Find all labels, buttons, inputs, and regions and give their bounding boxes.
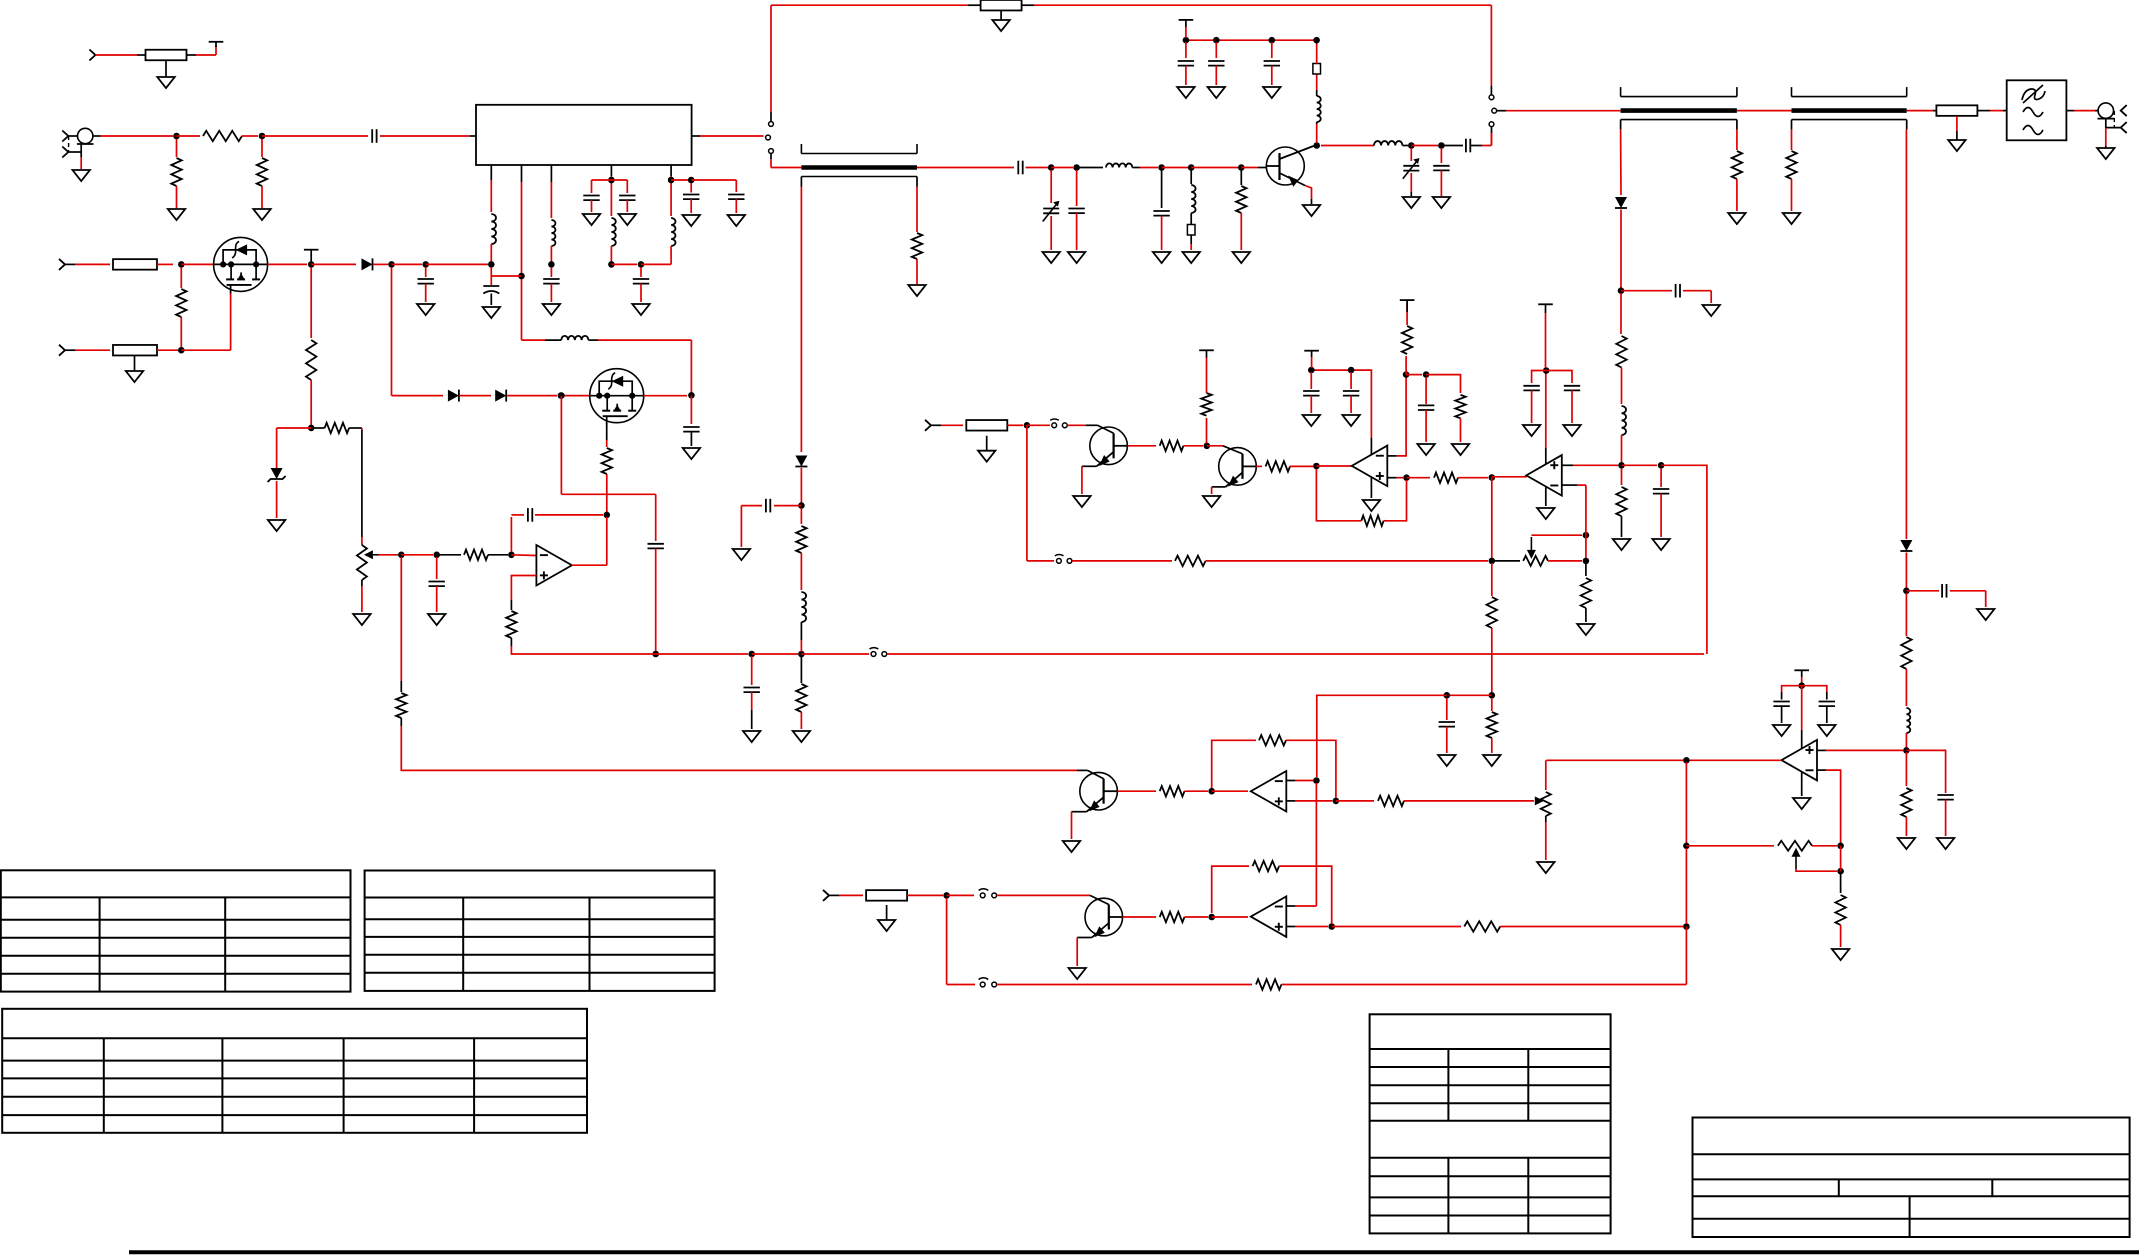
wire <box>1026 425 1028 561</box>
resistor R37 <box>1160 786 1185 796</box>
op-amp U1 <box>536 545 572 586</box>
wire <box>1425 410 1427 442</box>
wire <box>437 554 461 556</box>
wire <box>230 292 232 350</box>
wire <box>1933 110 1936 112</box>
wire <box>196 54 216 56</box>
wire <box>550 182 552 218</box>
resistor R39 <box>1378 796 1404 806</box>
ground <box>1898 838 1915 849</box>
node N24 <box>178 347 185 354</box>
wire <box>1545 373 1547 448</box>
resistor R36 <box>1616 336 1626 368</box>
capacitor C11 <box>1433 166 1449 171</box>
wire <box>1906 590 1939 592</box>
node N34 <box>604 512 611 519</box>
wire <box>588 339 598 341</box>
wire <box>1387 477 1397 479</box>
wire <box>1905 553 1907 589</box>
resistor R6 <box>1236 186 1246 213</box>
wire <box>361 430 363 537</box>
wire <box>1905 817 1907 836</box>
wire <box>507 395 557 397</box>
wire <box>400 557 402 681</box>
emitter jog <box>1082 465 1097 467</box>
wire <box>1685 927 1687 985</box>
wire <box>800 177 802 187</box>
wire <box>916 259 918 284</box>
wire <box>490 294 492 306</box>
wire <box>93 135 101 137</box>
filter block FL1 <box>2007 80 2067 140</box>
ground <box>1483 755 1500 766</box>
wire <box>800 468 802 503</box>
ground <box>1783 213 1800 224</box>
node N44 <box>1403 371 1410 378</box>
wire <box>1781 692 1783 700</box>
node N28 <box>422 261 429 268</box>
wire <box>400 681 402 692</box>
ground <box>1652 539 1669 550</box>
node N25 <box>308 261 315 268</box>
capacitor C31 <box>1653 489 1669 494</box>
wire <box>1660 468 1662 487</box>
capacitor C37 <box>1819 702 1835 707</box>
wire <box>180 267 182 288</box>
base wire <box>1223 446 1243 454</box>
wire <box>1826 770 1841 843</box>
wire <box>1491 738 1493 753</box>
wire <box>1620 130 1622 195</box>
power tap VT5 <box>1400 300 1415 312</box>
node N27 <box>308 425 315 432</box>
wire <box>1737 110 1792 112</box>
node N58 <box>1313 777 1320 784</box>
node N55 <box>1658 462 1665 469</box>
inductor L11 <box>801 592 806 622</box>
capacitor C7 <box>1208 61 1224 66</box>
wire <box>1290 465 1313 467</box>
wire <box>691 179 736 181</box>
wire <box>1545 448 1547 464</box>
ground <box>583 214 600 225</box>
node N6 <box>1158 164 1165 171</box>
wire <box>1802 686 1827 692</box>
base wire <box>1090 895 1109 904</box>
wire <box>1350 396 1352 413</box>
resistor R41 <box>1253 861 1280 871</box>
wire <box>1782 686 1802 692</box>
wire <box>1425 377 1427 404</box>
resistor R8 <box>1786 151 1796 179</box>
transistor Q4 <box>1090 427 1128 466</box>
wire <box>262 135 368 137</box>
node N64 <box>1683 757 1690 764</box>
ground <box>1203 496 1220 507</box>
fuse F3 <box>1313 64 1321 75</box>
wire <box>1397 477 1403 479</box>
resistor R9 <box>1936 105 1977 116</box>
wire <box>1426 375 1460 393</box>
capacitor C35 <box>1937 795 1953 800</box>
connector shield dash <box>68 136 70 152</box>
switch SW5 <box>1055 555 1072 564</box>
wire <box>490 267 492 285</box>
wire <box>1022 4 1034 6</box>
wire <box>770 5 772 112</box>
wire <box>68 135 77 137</box>
wire <box>1532 371 1547 384</box>
transistor Q7 <box>1085 898 1123 937</box>
wire <box>1905 593 1907 636</box>
wire <box>561 395 590 397</box>
table T_C <box>2 1009 587 1133</box>
ground <box>2097 146 2114 159</box>
wire <box>1190 244 1192 250</box>
capacitor C6 <box>1178 61 1194 66</box>
node N63 <box>943 892 950 899</box>
resistor R3 <box>171 158 181 186</box>
ground <box>1433 197 1450 208</box>
wire <box>510 638 512 646</box>
node N36 <box>433 552 440 559</box>
wire <box>511 554 536 557</box>
wire <box>137 54 146 56</box>
switch SW4 <box>1050 419 1067 428</box>
wire <box>550 246 552 262</box>
wire <box>1407 477 1431 479</box>
wire <box>741 505 762 507</box>
wire <box>690 395 692 424</box>
resistor R25 <box>1160 441 1184 451</box>
wire <box>1311 199 1313 204</box>
wire <box>1545 486 1547 506</box>
connector J6 <box>925 420 931 431</box>
resistor R21 <box>796 684 806 712</box>
wire <box>690 432 692 446</box>
wire <box>2003 110 2007 112</box>
wire <box>1490 86 1492 95</box>
wire <box>1281 984 1686 986</box>
wire <box>1440 148 1442 163</box>
wire <box>1531 534 1582 536</box>
ground <box>1342 415 1359 426</box>
wire <box>916 187 918 233</box>
wire <box>1812 845 1837 847</box>
node N43 <box>1313 463 1320 470</box>
resistor R40 <box>1160 912 1185 922</box>
wire <box>1397 377 1406 456</box>
wire <box>801 653 869 655</box>
wire <box>611 263 637 265</box>
wire <box>1384 520 1387 522</box>
wire <box>535 514 603 516</box>
wire <box>95 54 137 56</box>
resistor R11 <box>1901 788 1911 817</box>
MOSFET Q2 <box>590 369 644 425</box>
wire <box>401 554 433 556</box>
wire <box>931 424 941 426</box>
wire <box>1801 686 1803 730</box>
capacitor C8 <box>1264 61 1280 66</box>
potentiometer RV4 <box>1778 841 1812 869</box>
node N23 <box>178 261 185 268</box>
resistor R42 <box>1464 921 1500 931</box>
wire <box>1500 926 1683 928</box>
wire <box>752 653 798 655</box>
ground <box>1438 755 1455 766</box>
wire <box>1817 749 1826 751</box>
wire <box>1686 845 1774 847</box>
wire <box>1072 560 1172 562</box>
wire <box>436 557 438 579</box>
node N57 <box>1208 788 1215 795</box>
wire <box>1685 762 1687 843</box>
wire <box>1446 727 1448 753</box>
wire <box>1801 730 1803 749</box>
wire <box>560 396 562 495</box>
filter glyph <box>2022 85 2045 103</box>
node N15 <box>1438 142 1445 149</box>
wire <box>1185 27 1187 38</box>
base wire <box>1088 770 1104 778</box>
wire <box>2074 110 2095 112</box>
node N13 <box>1313 37 1320 44</box>
wire <box>545 339 561 341</box>
wire <box>700 135 764 137</box>
wire <box>1585 485 1587 535</box>
connector J3 pin 2 <box>2121 122 2127 133</box>
node N21 <box>668 177 675 184</box>
wire <box>68 151 81 153</box>
capacitor C21 <box>648 544 664 549</box>
wire <box>1316 122 1318 124</box>
wire <box>640 267 642 277</box>
wire <box>361 537 363 545</box>
wire <box>1387 480 1407 521</box>
wire <box>80 157 82 169</box>
diode D6 <box>495 390 506 402</box>
wire <box>1240 213 1242 250</box>
wire <box>2106 118 2121 127</box>
wire <box>276 481 278 518</box>
wire <box>1545 313 1547 368</box>
capacitor C5 <box>1153 211 1169 216</box>
wire <box>1215 66 1217 85</box>
wire <box>510 600 512 610</box>
ground <box>683 215 700 226</box>
wire <box>349 427 362 429</box>
wire <box>800 640 802 652</box>
resistor R10 <box>1901 637 1911 669</box>
wire <box>75 349 110 351</box>
wire <box>997 984 1252 986</box>
capacitor C14 <box>619 196 635 201</box>
resistor R14 <box>113 345 157 356</box>
wire <box>1621 368 1623 405</box>
wire <box>1206 370 1208 393</box>
table T_B <box>365 871 715 991</box>
wire <box>591 200 593 212</box>
ground <box>1183 252 1200 263</box>
wire <box>1211 487 1213 494</box>
power tap VT8 <box>1794 670 1809 677</box>
wire <box>1286 780 1295 782</box>
ground <box>1063 841 1080 852</box>
wire <box>1321 145 1374 147</box>
wire <box>1050 170 1052 203</box>
ground <box>1263 87 1280 98</box>
node N31 <box>558 392 565 399</box>
node N1 <box>173 133 180 140</box>
wire <box>1305 186 1312 200</box>
node N60 <box>1208 914 1215 921</box>
ground <box>168 209 185 220</box>
wire <box>610 246 612 262</box>
ground <box>1577 624 1594 635</box>
resistor R12 <box>113 259 157 270</box>
connector J2 pin 1 <box>62 131 68 142</box>
wire <box>1183 445 1203 447</box>
node N40 <box>1024 422 1031 429</box>
wire <box>460 395 491 397</box>
wire <box>1295 926 1328 928</box>
ground <box>1613 539 1630 550</box>
wire <box>1162 167 1188 169</box>
transistor Q3 <box>1266 146 1313 187</box>
capacitor C2 <box>1018 161 1022 175</box>
capacitor C29 <box>1343 391 1359 396</box>
ground <box>1563 425 1580 436</box>
inductor L12 <box>1622 406 1627 435</box>
wire <box>671 179 688 181</box>
node N11 <box>1213 37 1220 44</box>
switch SW1 <box>766 122 774 154</box>
emitter jog <box>1212 486 1226 488</box>
wire <box>490 165 492 180</box>
filter glyph sine <box>2023 126 2043 135</box>
ground <box>268 520 285 531</box>
fuse F2 <box>1187 225 1195 236</box>
wire <box>655 494 657 541</box>
wire <box>640 284 642 302</box>
wire <box>561 493 655 495</box>
power tap VT7 <box>1538 304 1553 313</box>
wire <box>1817 769 1826 771</box>
ground <box>157 60 174 88</box>
wire <box>1545 760 1547 790</box>
wire <box>180 317 182 347</box>
wire <box>1411 145 1438 147</box>
wire <box>800 656 802 683</box>
sheet border <box>129 1250 2139 1254</box>
ground <box>1363 500 1380 511</box>
wire <box>1190 235 1192 244</box>
wire <box>1207 445 1223 447</box>
node N26 <box>388 261 395 268</box>
wire <box>1491 127 1493 133</box>
ground <box>1417 444 1434 455</box>
wire <box>522 339 546 341</box>
transformer T1 <box>801 144 917 177</box>
wire <box>1905 733 1907 748</box>
node N12 <box>1269 37 1276 44</box>
wire <box>1907 110 1933 112</box>
wire <box>311 427 324 429</box>
wire <box>511 514 524 516</box>
wire <box>1826 749 1903 751</box>
wire <box>1491 478 1493 559</box>
wire <box>1117 790 1156 792</box>
ground <box>793 731 810 742</box>
resistor R16 <box>602 448 612 474</box>
resistor R34 <box>1581 578 1591 608</box>
wire <box>770 159 772 168</box>
wire <box>1985 591 1987 607</box>
wire <box>1185 916 1209 918</box>
node N53 <box>1583 558 1590 565</box>
ground <box>1948 131 1965 151</box>
wire <box>1620 210 1622 289</box>
diode D3 <box>1900 540 1912 551</box>
wire <box>1212 916 1248 918</box>
wire <box>839 894 863 896</box>
wire <box>1446 698 1448 720</box>
ground <box>1452 444 1469 455</box>
ground <box>1937 838 1954 849</box>
ground <box>1208 87 1225 98</box>
wire <box>361 580 363 586</box>
MOSFET Q1 <box>214 237 268 293</box>
wire <box>800 622 802 640</box>
inductor L2 <box>1191 185 1195 213</box>
wire <box>1271 66 1273 85</box>
node N14 <box>1408 142 1415 149</box>
wire <box>1443 694 1492 696</box>
wire <box>1271 42 1273 58</box>
wire <box>392 263 423 265</box>
wire <box>1956 116 1958 131</box>
resistor R27 <box>1266 461 1290 471</box>
op-amp U3 <box>1526 455 1562 496</box>
wire <box>606 423 608 440</box>
capacitor C12 <box>1942 584 1946 598</box>
capacitor C17 <box>418 279 434 284</box>
wire <box>1458 477 1488 479</box>
wire <box>1497 110 1506 112</box>
ground <box>1523 425 1540 436</box>
node N56 <box>1543 367 1550 374</box>
wire <box>1027 424 1050 426</box>
resistor R22 <box>796 526 806 553</box>
wire <box>1212 866 1249 913</box>
wire <box>1027 560 1054 562</box>
wire rail VCC <box>1034 4 1491 6</box>
wire <box>1781 706 1783 723</box>
wire <box>101 135 174 137</box>
connector J3 <box>2098 103 2115 119</box>
wire <box>80 144 82 157</box>
transistor Q5 <box>1219 448 1257 487</box>
wire <box>1076 213 1078 250</box>
wire <box>1406 302 1408 325</box>
resistor R24 <box>1175 556 1206 566</box>
wire <box>1736 130 1738 150</box>
resistor R43 <box>866 890 907 901</box>
wire <box>511 576 536 601</box>
wire <box>1410 148 1412 161</box>
ground <box>253 209 270 220</box>
